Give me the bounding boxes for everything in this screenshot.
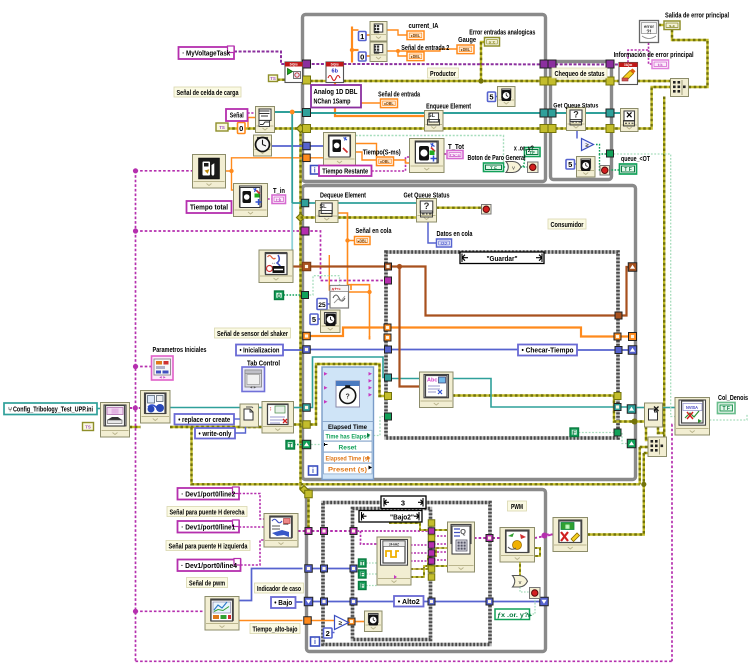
- tunnels consumer right edge: [628, 263, 637, 272]
- svg-text:t:k: t:k: [276, 197, 282, 202]
- svg-text:Dequeue Element: Dequeue Element: [320, 193, 367, 200]
- svg-text:· MyVoltageTask: · MyVoltageTask: [182, 51, 230, 58]
- label Chequeo de status: [552, 68, 607, 78]
- wire string bundle case to write VI: [411, 536, 432, 545]
- wire string Senal label to resample: [248, 112, 256, 114]
- tunnels producer right edge: [540, 60, 548, 68]
- wire bool F case to SR: [579, 432, 616, 434]
- wire enum chart to case y568: [239, 569, 303, 601]
- const 2 pwm: [324, 628, 333, 638]
- wire error TS to DAQmx start y80: [277, 78, 305, 80]
- bool x.or.y TF: [525, 148, 541, 157]
- svg-text:3: 3: [401, 499, 405, 508]
- svg-text:?: ?: [424, 201, 430, 212]
- op close file VI: [645, 403, 663, 427]
- op watch pencil VI U6 Tiempo total: [234, 184, 268, 217]
- label PWM: [508, 501, 527, 511]
- wire bool comparator chequeo: [596, 145, 608, 155]
- op tab control: [242, 367, 265, 392]
- wire DBL daqmx-read to enqueue and senal-entrada: [335, 83, 425, 117]
- label senal de sensor del shaker: [215, 328, 291, 338]
- svg-text:t:k: t:k: [658, 62, 664, 67]
- label Tiempo total: [187, 201, 232, 213]
- label Bajo: [271, 597, 296, 608]
- wire bool elapsed green y135: [356, 136, 504, 164]
- svg-text:Gauge: Gauge: [458, 37, 476, 44]
- op get queue status chequeo: [567, 108, 586, 131]
- op index array 2: [370, 42, 387, 62]
- label replace or create: [175, 414, 235, 425]
- wire error X-icon to merge1: [638, 87, 671, 129]
- label senal de pwm: [187, 578, 228, 588]
- svg-text:· Dev1/port0/line1: · Dev1/port0/line1: [181, 524, 235, 531]
- op set file position VI: [262, 402, 294, 434]
- wire DBL to filter VI: [328, 255, 331, 290]
- indicator datos en cola I32: [437, 239, 452, 247]
- wire refnum consumer interior: [310, 357, 386, 408]
- svg-text:?: ?: [346, 393, 350, 400]
- svg-text:T: T: [360, 561, 364, 568]
- wire string pwm edge to X-pencil VI: [546, 534, 553, 536]
- svg-text:Config_Tribology_Test_UPP.ini: Config_Tribology_Test_UPP.ini: [13, 406, 93, 413]
- const 1: [359, 32, 367, 41]
- op or gate pwm: [513, 576, 528, 588]
- svg-text:PWM: PWM: [511, 504, 523, 511]
- wire bool or-gate producer: [504, 166, 507, 168]
- svg-text:6b: 6b: [332, 69, 339, 75]
- label Alto2: [394, 596, 424, 607]
- label senal puente izquierda: [166, 541, 250, 551]
- wire error config row y427: [130, 426, 141, 428]
- svg-text:T_Tot: T_Tot: [448, 144, 465, 151]
- wire path config constant to VI: [97, 408, 101, 410]
- svg-text:"Bajo2": "Bajo2": [390, 514, 414, 521]
- wire error pwm interior bundle: [307, 489, 309, 534]
- svg-text:5: 5: [489, 93, 493, 102]
- op DAQmx clear task: [619, 63, 638, 85]
- ts box producer: [269, 75, 278, 82]
- svg-text:error: error: [644, 24, 654, 29]
- svg-text:?: ?: [573, 110, 579, 120]
- svg-text:Consumidor: Consumidor: [551, 222, 584, 229]
- const 0 orange: [238, 123, 246, 134]
- label fx or y pwm: [495, 609, 530, 620]
- case structure Guardar border: [386, 252, 618, 438]
- svg-text:◄►: ◄►: [159, 375, 167, 380]
- wire refnum abc out: [453, 379, 629, 408]
- svg-text:Indicador de caso: Indicador de caso: [257, 586, 301, 593]
- wire string left main vertical x135: [135, 171, 137, 662]
- svg-text:Señal de pwm: Señal de pwm: [189, 580, 225, 587]
- svg-text:Señal en cola: Señal en cola: [356, 228, 392, 235]
- op gas pump VI U5: [193, 155, 226, 189]
- tunnel purple producer left: [303, 60, 311, 68]
- wire error left vertical x300: [299, 129, 301, 490]
- wire enum bajo-alto2 y601: [296, 601, 303, 603]
- op square wave VI: [377, 537, 411, 585]
- svg-text:5: 5: [312, 315, 316, 324]
- op denoise VI: [675, 398, 710, 436]
- wire int clock to producer watch VI: [271, 145, 324, 147]
- label dev line2: [178, 488, 240, 500]
- wire string DO channel into PWM loop y531: [298, 530, 353, 532]
- wire enum checar-tiempo y349: [390, 349, 518, 351]
- svg-text:5: 5: [568, 160, 572, 169]
- svg-text:▸DBL: ▸DBL: [384, 101, 394, 106]
- op merge errors 2: [648, 437, 667, 457]
- wire error close-file to merge2: [646, 422, 649, 441]
- svg-text:Get Queue Status: Get Queue Status: [404, 193, 450, 200]
- svg-text:F: F: [572, 430, 576, 437]
- indicator error entradas ERR: [485, 38, 500, 47]
- tunnels pwm right edge: [540, 597, 549, 606]
- svg-text:x .or. y?: x .or. y?: [514, 146, 534, 153]
- op or gate producer: [506, 162, 521, 173]
- wire refnum setpos into consumer y407: [294, 407, 303, 409]
- wire bool or-gate pwm: [520, 548, 540, 576]
- wire string bottom return y661: [136, 660, 673, 662]
- wire int 5 to wait consumer: [318, 318, 321, 320]
- tunnels pwm left edge: [305, 490, 313, 498]
- wire string to parametros VI: [136, 366, 152, 368]
- indicator senal de entrada DBL: [381, 99, 398, 108]
- bool F constant consumer: [275, 291, 284, 300]
- wire string T_Tot VI to indicator: [444, 153, 447, 155]
- svg-text:Parametros Iniciales: Parametros Iniciales: [153, 347, 207, 354]
- iter terminal pwm: [311, 637, 320, 646]
- wire orange senal-0 elbow: [248, 118, 256, 129]
- wire DBL dequeue to senal en cola: [338, 213, 355, 241]
- svg-text:▒▒: ▒▒: [111, 408, 119, 415]
- tunnel olive producer left y128: [303, 125, 311, 133]
- label Senal: [226, 109, 248, 121]
- op abc write VI: [420, 372, 454, 408]
- wire enum inicializacion y349: [283, 349, 303, 351]
- svg-text:Boton de Paro General: Boton de Paro General: [468, 155, 526, 162]
- wire lightblue to shaker VI: [291, 203, 293, 250]
- wire queue left vertical x292: [291, 112, 293, 203]
- svg-text:1: 1: [360, 32, 364, 41]
- svg-text:ʌ+•▪: ʌ+•▪: [332, 286, 341, 291]
- wire string Tiempo Restante to T_Tot VI: [372, 157, 410, 171]
- label indicador de caso: [255, 583, 304, 593]
- wire error bundle case write: [411, 566, 448, 577]
- svg-text:▦: ▦: [565, 524, 570, 530]
- svg-text:Señal: Señal: [230, 111, 244, 120]
- wire DAQmx task MyVoltageTask to start: [234, 52, 285, 65]
- svg-text:0: 0: [239, 124, 243, 133]
- label senal de celda de carga: [174, 87, 241, 97]
- label MyVoltageTask: [179, 47, 235, 59]
- op read keys VI: [141, 391, 171, 424]
- svg-text:current_IA: current_IA: [409, 23, 439, 30]
- svg-text:• Alto2: • Alto2: [398, 597, 420, 606]
- wire error merge1 to salida indicator: [672, 30, 708, 87]
- svg-text:×: ×: [626, 110, 632, 122]
- svg-text:Reset: Reset: [339, 445, 358, 452]
- svg-text:24-kHZ: 24-kHZ: [389, 543, 400, 547]
- case structure Bajo2 border: [353, 509, 431, 640]
- wire DBL index1 to current_IA: [387, 30, 407, 35]
- iter terminal producer: [311, 166, 320, 175]
- wire refnum case to abc VI: [390, 378, 420, 380]
- svg-text:?!: ?!: [646, 30, 651, 36]
- svg-text:Error entradas analogicas: Error entradas analogicas: [469, 30, 535, 37]
- svg-text:SL: SL: [320, 204, 328, 210]
- svg-text:• write-only: • write-only: [199, 429, 232, 438]
- svg-text:T: T: [288, 442, 292, 449]
- op DAQmx read U2: [326, 62, 344, 83]
- svg-text:⑂: ⑂: [8, 405, 12, 413]
- indicator current_IA DBL: [407, 31, 424, 40]
- while loop Consumidor frame: [303, 186, 636, 480]
- wire DBL daqmx-read to index arrays: [351, 27, 353, 63]
- op parametros iniciales VI: [152, 356, 174, 380]
- tunnel teal producer left y112: [303, 109, 311, 117]
- svg-text:Chequeo de status: Chequeo de status: [555, 71, 605, 78]
- svg-text:Tiempo Restante: Tiempo Restante: [322, 166, 368, 175]
- tunnels consumer left edge: [301, 199, 309, 207]
- tunnel olive producer left y80: [303, 76, 311, 84]
- svg-text:• Checar-Tiempo: • Checar-Tiempo: [522, 346, 575, 355]
- svg-text:Señal de entrada 2: Señal de entrada 2: [401, 45, 449, 52]
- while loop PWM frame: [307, 490, 546, 652]
- op simple error handler: [640, 21, 659, 43]
- wire queue producer y113: [310, 112, 425, 114]
- op producer watch VI Tiempo Restante: [324, 133, 356, 166]
- case selector Guardar: [460, 252, 544, 264]
- wire string y231 into consumer: [136, 231, 387, 281]
- svg-text:ƒx .or. y?▸: ƒx .or. y?▸: [497, 612, 533, 619]
- wire waveform branch to abc VI: [400, 267, 420, 387]
- wire error x639 vertical to merge2: [639, 447, 641, 484]
- wire string PID VI to pwm edge: [535, 535, 554, 539]
- wire bool queue_OT LED: [600, 154, 601, 170]
- wire error clear-task to merge y81: [638, 80, 672, 82]
- wire error long vertical x664: [663, 97, 665, 438]
- op dequeue element consumer: [316, 201, 339, 223]
- wire error abc out to case edge: [453, 396, 649, 422]
- op wait ms producer: [498, 87, 516, 107]
- op elapsed time express VI: [322, 367, 374, 480]
- wire queue resample out y112: [274, 111, 303, 113]
- svg-text:Tiempo total: Tiempo total: [190, 203, 228, 212]
- svg-text:▸DBL: ▸DBL: [380, 159, 390, 164]
- op X pencil VI clear: [553, 518, 588, 552]
- svg-text:DAQmx: DAQmx: [290, 63, 298, 67]
- svg-text:Tiempo(S-ms): Tiempo(S-ms): [363, 150, 401, 157]
- ts box config: [83, 423, 94, 431]
- wire DBL index2 to senal2 and gauge: [387, 51, 407, 56]
- indicator salida error: [664, 21, 680, 30]
- bool constants squarewave: [359, 559, 367, 567]
- wire refnum keys to open y407: [170, 407, 240, 409]
- bool T constant pwm reset: [286, 441, 295, 450]
- svg-text:v: v: [512, 165, 515, 171]
- wire int 2 to comparator pwm: [332, 632, 335, 634]
- wire bool fx-or-y to stop pwm: [530, 599, 536, 615]
- label consumidor: [548, 219, 586, 229]
- wire waveform shaker out y266: [293, 265, 303, 267]
- op wait ms consumer: [321, 310, 341, 333]
- wire DBL senal de pwm vertical: [231, 189, 233, 191]
- wire bool denoise to col_denois: [710, 414, 748, 421]
- bool queue_OT indicator: [620, 164, 637, 174]
- svg-text:• Inicializacion: • Inicializacion: [240, 346, 280, 355]
- op PID VI pwm: [500, 528, 535, 563]
- wire int 5 to wait chequeo: [575, 163, 577, 165]
- svg-text:TS: TS: [270, 76, 276, 81]
- while loop Chequeo de status frame: [551, 62, 612, 180]
- wire queue into dequeue y203: [292, 202, 315, 204]
- wire DBL case tunnels y327 y336: [310, 328, 629, 337]
- wire DBL gas pump out: [226, 158, 303, 171]
- svg-text:Abc: Abc: [427, 378, 437, 384]
- const 5 consumer: [310, 314, 318, 325]
- wire DBL watch VI tiempo out: [356, 144, 377, 158]
- wire DBL express to case: [369, 336, 371, 340]
- op comparator chequeo: [582, 139, 594, 151]
- svg-text:0: 0: [360, 52, 364, 61]
- svg-text:DAQmx: DAQmx: [331, 63, 339, 67]
- label analog 1d dbl: [311, 85, 361, 108]
- svg-text:0: 0: [277, 293, 281, 300]
- indicator T_Tot pink box: [447, 151, 463, 159]
- svg-text:Señal de celda de carga: Señal de celda de carga: [177, 90, 239, 97]
- op DAQmx start task U1: [285, 62, 303, 83]
- wire string dev lines to DO channel VI: [239, 494, 264, 520]
- wire error consumer interior elapsed loop: [310, 364, 386, 425]
- svg-text:Datos en cola: Datos en cola: [437, 231, 473, 238]
- svg-text:Información de error principal: Información de error principal: [614, 52, 694, 59]
- svg-text:· Dev1/port0/line4: · Dev1/port0/line4: [181, 563, 237, 570]
- svg-text:T_in: T_in: [273, 188, 285, 195]
- svg-text:Analog 1D DBL: Analog 1D DBL: [314, 89, 359, 96]
- wire int 5 to wait producer: [495, 96, 498, 98]
- wire int 25 to filter: [327, 303, 331, 305]
- svg-text:Enqueue Element: Enqueue Element: [426, 104, 472, 111]
- svg-text:T F: T F: [490, 165, 497, 170]
- label dev line1: [178, 521, 240, 533]
- stop LED chequeo: [600, 166, 610, 176]
- wire refnum close-file to denoise: [663, 407, 677, 409]
- svg-text:Señal para puente H derecha: Señal para puente H derecha: [170, 509, 245, 516]
- wire bool long vertical x670 queue_OT: [614, 154, 677, 417]
- wire string right vertical to denoise x672: [672, 425, 676, 662]
- op shaker sensor VI: [259, 250, 293, 283]
- wire bool F into consumer y295: [284, 294, 303, 296]
- wire string to gas pump: [136, 170, 193, 172]
- op wait ms pwm: [365, 611, 383, 632]
- wire waveform consumer to case y266: [310, 265, 386, 267]
- svg-text:TS: TS: [219, 125, 225, 130]
- wire string watch VI to T_in: [268, 198, 273, 200]
- wire error producer row y128: [310, 127, 425, 129]
- wire error resample row y128: [227, 127, 256, 129]
- wire DBL filter out: [348, 291, 370, 293]
- wire bool T F F to squarewave: [366, 562, 377, 564]
- op wait ms chequeo: [577, 157, 596, 178]
- op filter VI A+: [330, 286, 349, 309]
- indicator informacion error pink: [652, 60, 669, 69]
- svg-text:• Bajo: • Bajo: [274, 598, 293, 607]
- svg-text:↔: ↔: [271, 260, 276, 266]
- case selector 3: [381, 496, 426, 509]
- svg-text:T F: T F: [624, 167, 632, 173]
- ts box senal: [216, 123, 228, 131]
- wire string config to keys VI: [130, 407, 141, 409]
- wire string inside Bajo2 case: [357, 530, 428, 532]
- svg-text:Productor: Productor: [430, 71, 456, 78]
- svg-text:25: 25: [318, 302, 326, 309]
- svg-text:↕: ↕: [269, 407, 272, 413]
- const 5 producer: [488, 92, 496, 102]
- label Tiempo Restante: [319, 166, 372, 177]
- wire error dequeue row y217: [301, 216, 316, 218]
- tunnels bajo2 case right edge bundle: [428, 520, 435, 527]
- wire bool T to reset: [294, 444, 303, 446]
- op multiply X: [621, 109, 639, 132]
- wire string to chart VI: [136, 610, 206, 612]
- wire string write VI to PID VI: [474, 537, 500, 539]
- svg-text:Señal de sensor del shaker: Señal de sensor del shaker: [217, 331, 288, 338]
- svg-text:≥: ≥: [339, 620, 343, 627]
- indicator Gauge DBL: [457, 45, 474, 54]
- svg-text:Tiempo_alto-bajo: Tiempo_alto-bajo: [253, 626, 298, 633]
- svg-text:▸DBL: ▸DBL: [460, 47, 470, 52]
- wire error chequeo row y81: [550, 80, 554, 82]
- wire int gqs chequeo to comparator: [576, 131, 578, 139]
- wire bool time-has-elapsed out: [370, 417, 386, 436]
- bool Col_Denois indicator: [718, 403, 736, 414]
- svg-text:i: i: [314, 167, 316, 174]
- wire string clear-task to error handler: [628, 43, 649, 63]
- op comparator pwm: [335, 616, 349, 630]
- indicator T_in pink box: [272, 195, 286, 204]
- svg-text:Salida de error principal: Salida de error principal: [665, 13, 729, 20]
- stop LED pwm: [530, 588, 541, 599]
- op clock wait U4: [254, 135, 272, 156]
- op T_Tot watch VI: [410, 139, 445, 173]
- const 0: [359, 52, 367, 61]
- label Checar-Tiempo: [518, 345, 577, 356]
- svg-text:Present (s): Present (s): [328, 467, 367, 474]
- wire refnum to close file: [635, 407, 645, 409]
- op config read VI: [101, 403, 130, 438]
- op index array 1: [370, 22, 387, 42]
- svg-text:Q: Q: [460, 527, 466, 536]
- svg-text:NChan 1Samp: NChan 1Samp: [314, 99, 351, 106]
- svg-text:queue_<OT: queue_<OT: [621, 156, 651, 163]
- label Productor: [428, 68, 459, 78]
- svg-text:T F: T F: [722, 406, 730, 412]
- indicator Tiempo S-ms DBL: [377, 157, 394, 166]
- svg-text:Get Queue Status: Get Queue Status: [553, 103, 598, 110]
- op get queue status consumer: [417, 199, 437, 223]
- label inicializacion: [236, 345, 283, 356]
- svg-text:Elapsed Time (s): Elapsed Time (s): [326, 456, 370, 463]
- wire error producer top row y81: [310, 80, 326, 82]
- op DAQmx write VI: [448, 522, 475, 572]
- case selector Bajo2: [359, 511, 422, 523]
- indicator senal en cola DBL: [355, 237, 371, 245]
- svg-text:Señal para puente H izquierda: Señal para puente H izquierda: [169, 543, 248, 550]
- svg-text:t:k:s: t:k:s: [450, 152, 461, 157]
- op DAQmx create DO channel: [264, 514, 298, 548]
- svg-text:◄►: ◄►: [249, 385, 257, 390]
- svg-text:"Guardar": "Guardar": [487, 254, 518, 263]
- svg-text:· Dev1/port0/line2: · Dev1/port0/line2: [181, 491, 235, 498]
